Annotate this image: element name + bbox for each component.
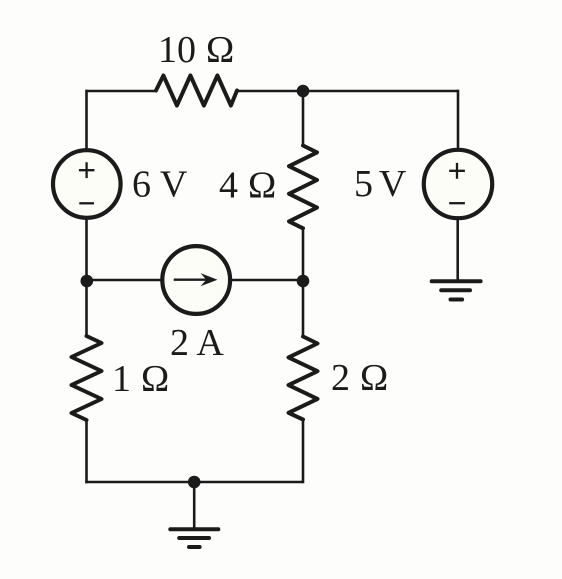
wire mid vertical (4ohm to 2ohm through node B) bbox=[302, 228, 305, 339]
voltage source V2 5V circle bbox=[424, 150, 492, 218]
wire mid horizontal right (current source to node B) bbox=[231, 279, 303, 282]
svg-text:5 V: 5 V bbox=[354, 163, 407, 205]
node B right bbox=[297, 275, 310, 288]
I1 arrow bbox=[174, 273, 218, 286]
svg-text:2 A: 2 A bbox=[170, 322, 224, 364]
V1 plus sign bbox=[79, 162, 95, 178]
wire mid vertical lower (2ohm to bottom) bbox=[302, 419, 305, 484]
voltage source V1 6V circle bbox=[53, 150, 121, 218]
wire top-right horizontal bbox=[236, 90, 458, 93]
node A left bbox=[81, 275, 94, 288]
wire right vertical upper bbox=[457, 90, 460, 149]
svg-text:4 Ω: 4 Ω bbox=[219, 164, 277, 206]
ground right bbox=[432, 281, 481, 299]
wire right vertical lower (5V to ground) bbox=[456, 220, 459, 282]
wire top-left horizontal bbox=[86, 90, 157, 93]
svg-text:10 Ω: 10 Ω bbox=[158, 29, 235, 71]
resistor 2 ohm bbox=[289, 337, 318, 420]
ground bottom bbox=[170, 529, 218, 547]
node junction top bbox=[297, 85, 310, 98]
svg-text:6 V: 6 V bbox=[132, 164, 188, 206]
wire mid horizontal left (node A to current source) bbox=[87, 279, 162, 282]
svg-text:1 Ω: 1 Ω bbox=[112, 358, 170, 400]
V2 plus sign bbox=[449, 163, 465, 179]
wire ground stub bottom bbox=[193, 482, 196, 529]
wire mid vertical upper (junction to 4ohm) bbox=[302, 91, 305, 147]
resistor 1 ohm bbox=[72, 336, 102, 420]
resistor 10 ohm bbox=[156, 76, 237, 106]
wire left vertical lower (R 1ohm to bottom) bbox=[85, 419, 88, 483]
V2 minus sign bbox=[449, 202, 465, 204]
V1 minus sign bbox=[79, 202, 94, 204]
svg-text:2 Ω: 2 Ω bbox=[331, 357, 389, 399]
wire bottom horizontal bbox=[85, 481, 303, 484]
current source I1 2A circle bbox=[162, 246, 230, 314]
wire left vertical upper bbox=[85, 90, 88, 149]
wire left vertical mid (6V to node A) bbox=[85, 220, 88, 338]
node bottom junction bbox=[188, 476, 201, 489]
resistor 4 ohm bbox=[289, 146, 317, 229]
